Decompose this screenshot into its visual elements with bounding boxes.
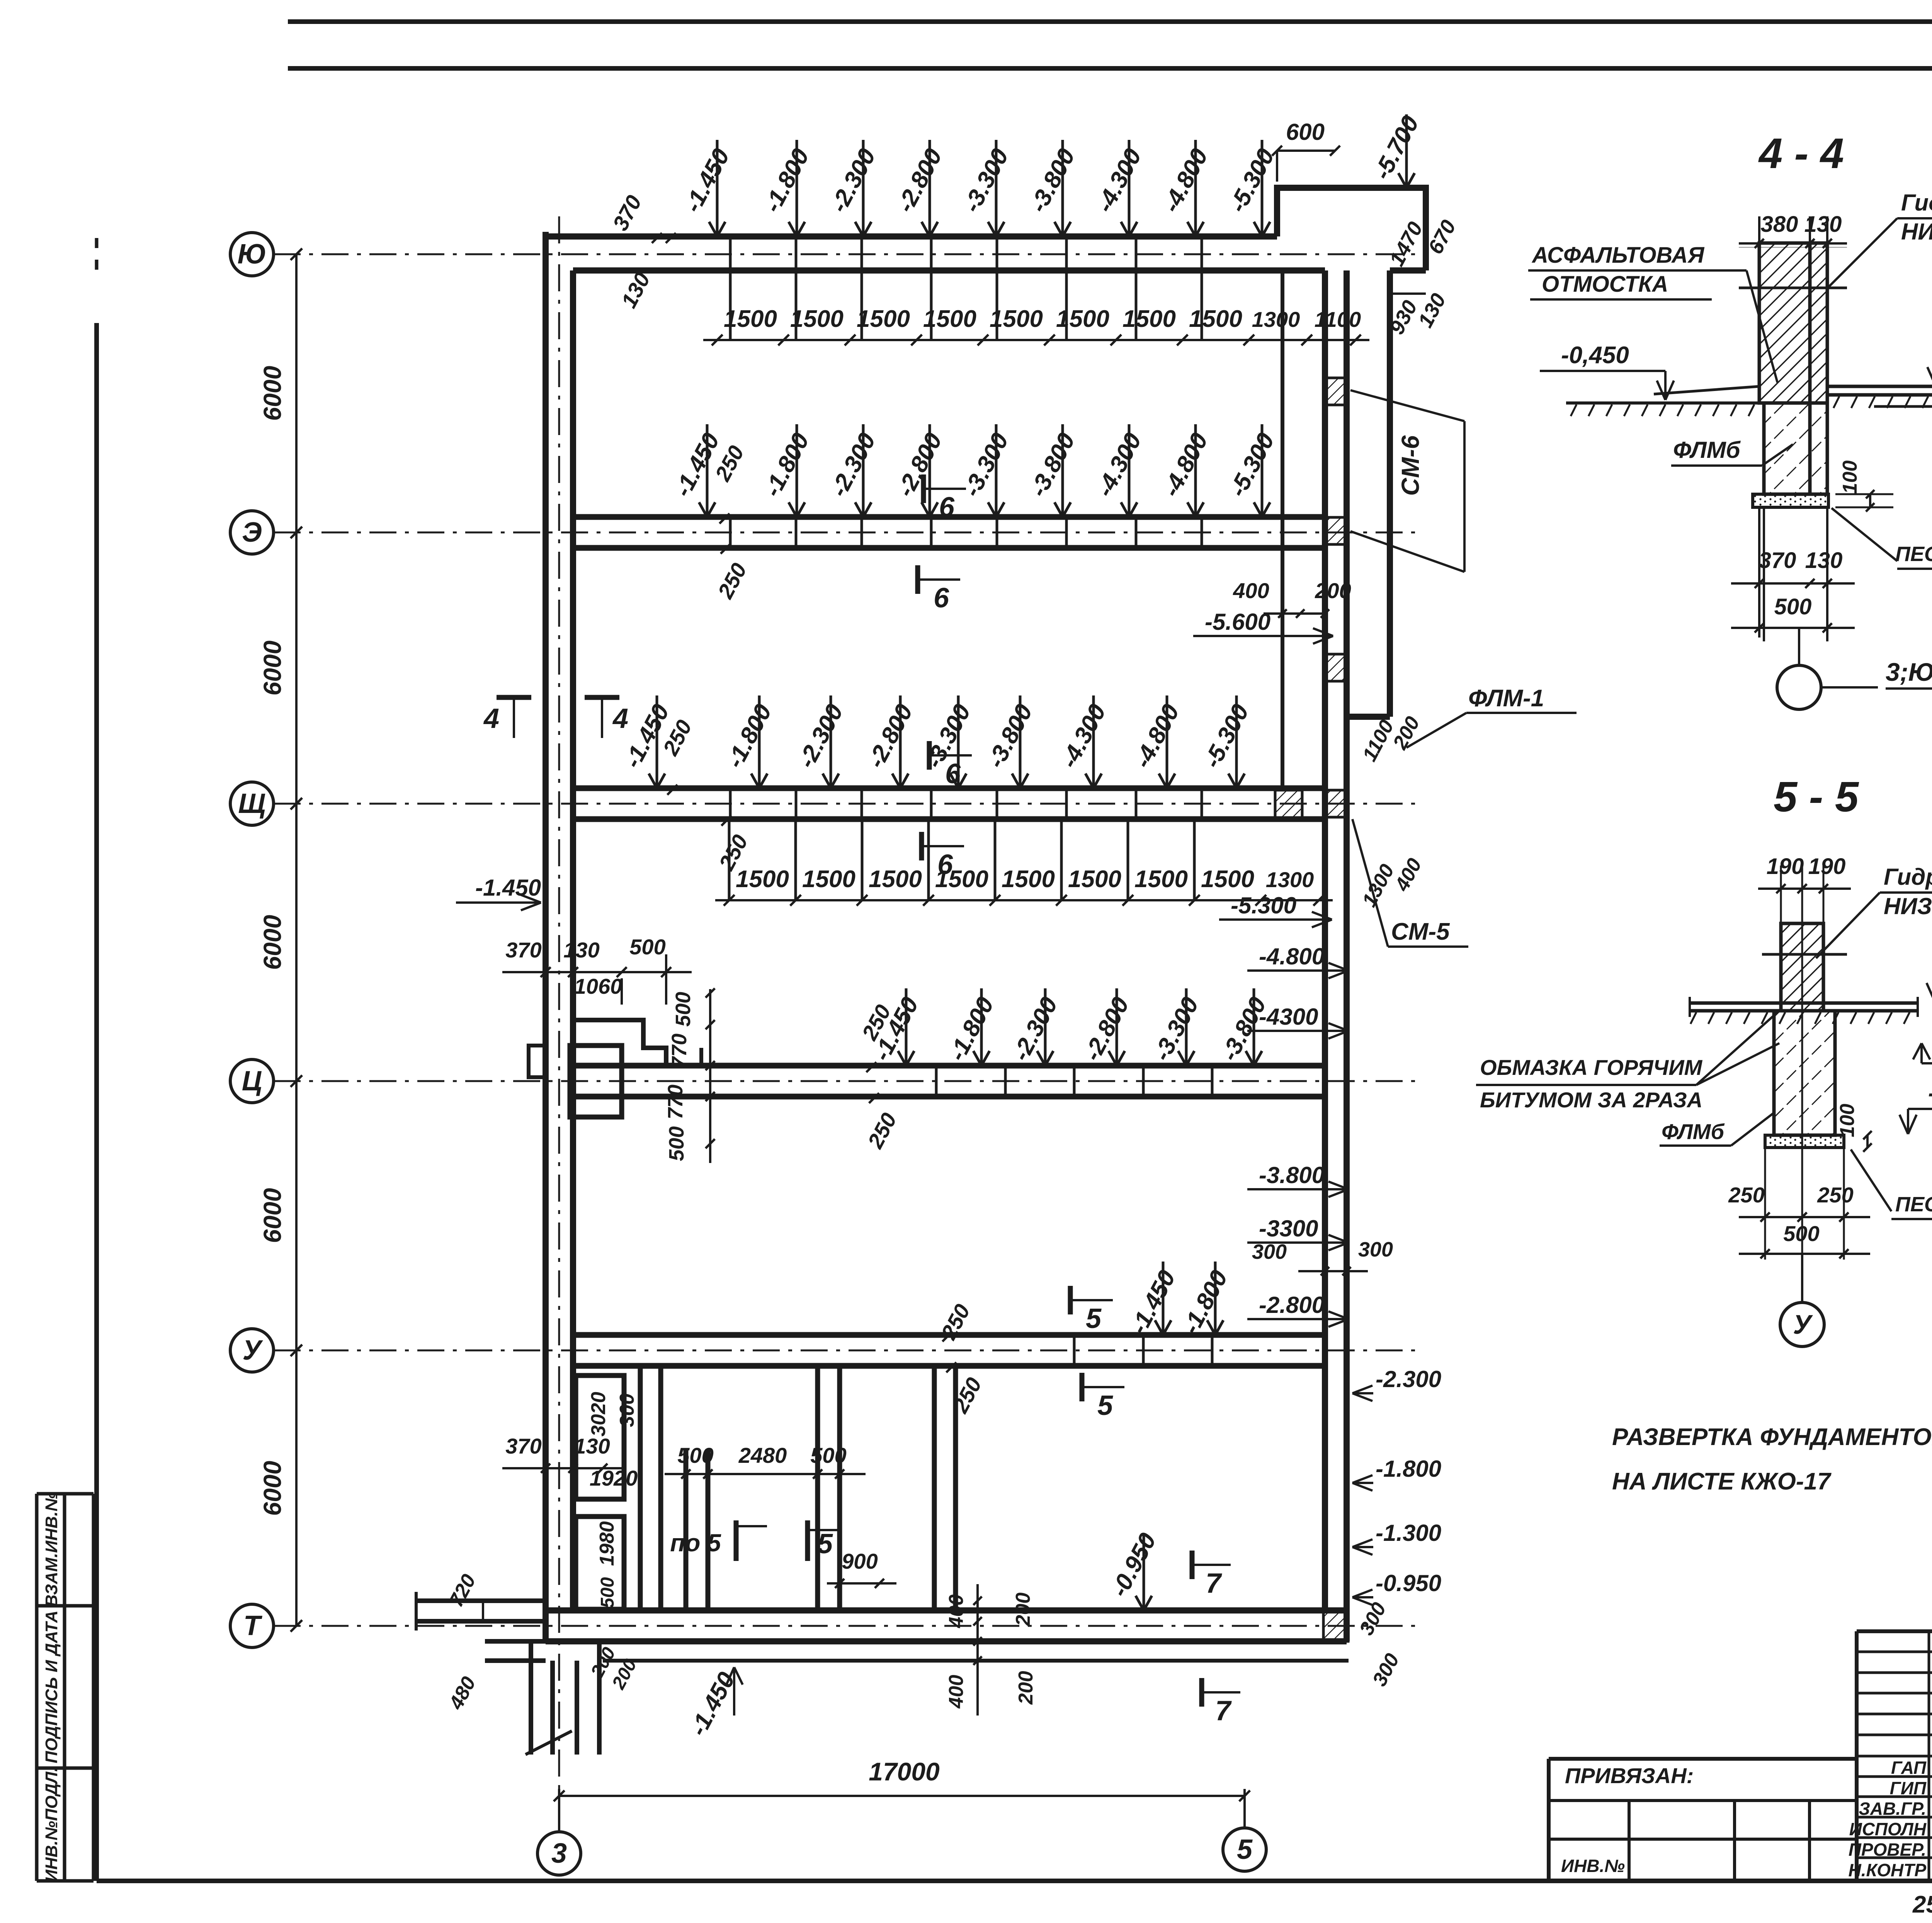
svg-text:500: 500 [1774,594,1812,619]
svg-text:-4300: -4300 [1259,1004,1318,1030]
axis У [230,1329,274,1372]
section 4-4 axis circle 3;Yu;A;4 [1798,628,1800,665]
svg-text:ЗАВ.ГР.: ЗАВ.ГР. [1859,1799,1926,1819]
svg-text:6: 6 [945,758,961,789]
svg-text:1500: 1500 [790,306,844,332]
svg-text:7: 7 [1206,1568,1222,1599]
svg-text:1500: 1500 [736,866,789,893]
svg-text:300: 300 [1358,1238,1393,1261]
svg-text:НИЗ НА ∇ -0.050: НИЗ НА ∇ -0.050 [1901,219,1932,245]
svg-text:4: 4 [483,703,499,734]
svg-text:ПЕСЧАНАЯ ПОДГОТОВКА: ПЕСЧАНАЯ ПОДГОТОВКА [1895,542,1932,566]
svg-text:-1.450: -1.450 [1928,1080,1932,1107]
svg-text:НИЗ НА ∇- 0.050: НИЗ НА ∇- 0.050 [1884,893,1932,919]
left margin stamp boxes [37,1492,94,1496]
row of depth arrows above axis Ts wall [905,988,908,1066]
svg-text:500: 500 [1783,1221,1819,1246]
svg-text:Гидроизоляция: Гидроизоляция [1884,864,1932,890]
svg-text:1500: 1500 [1068,866,1121,893]
plan: interior cells left side between Ts and U [573,1020,666,1066]
plan: right wall [1322,270,1328,1610]
svg-text:6: 6 [934,583,949,614]
section cut 6 marks at axis E [921,474,926,503]
svg-text:ФЛМб: ФЛМб [1662,1119,1725,1144]
section 5-5 foundation block [1774,1011,1835,1135]
svg-text:-5.300: -5.300 [1231,893,1296,918]
svg-text:3;Ю;А;4: 3;Ю;А;4 [1886,658,1932,686]
svg-text:-1.450: -1.450 [475,875,541,901]
svg-text:-1.800: -1.800 [1376,1456,1441,1482]
left frame line [95,238,99,270]
svg-text:1500: 1500 [802,866,855,893]
dim 600 and -5.700 top right [1277,150,1335,152]
svg-text:ИСПОЛН: ИСПОЛН [1849,1819,1927,1839]
svg-text:БИТУМОМ ЗА 2РАЗА: БИТУМОМ ЗА 2РАЗА [1480,1088,1702,1112]
row of depth arrows above axis Shch wall [656,695,658,788]
svg-text:Т: Т [243,1610,263,1641]
svg-text:РАЗВЕРТКА ФУНДАМЕНТОВ ПО ОС: РАЗВЕРТКА ФУНДАМЕНТОВ ПО ОСИ 5 ДАНА [1612,1424,1932,1450]
svg-text:1920: 1920 [590,1466,638,1490]
svg-text:-0.950: -0.950 [1376,1570,1441,1596]
svg-text:Э: Э [242,517,262,548]
bottom frame line [97,1879,1932,1883]
axis Ю [230,233,274,276]
svg-text:500: 500 [597,1577,618,1608]
svg-text:6000: 6000 [259,1461,286,1516]
depth arrow -0.950 above axis T and cut 7 [1143,1533,1145,1610]
svg-text:130: 130 [574,1434,610,1458]
svg-text:7: 7 [1215,1695,1232,1726]
svg-text:ФЛМ-1: ФЛМ-1 [1468,685,1544,712]
svg-text:1500: 1500 [1189,306,1242,332]
vertical dimension line 6000 column [295,254,298,1626]
svg-text:5: 5 [1086,1303,1102,1334]
svg-text:1300: 1300 [1266,867,1314,892]
plan: cells below U [576,1376,624,1499]
svg-text:1500: 1500 [990,306,1043,332]
section cut 4 marks left of plan [497,695,531,700]
svg-text:1500: 1500 [1002,866,1055,893]
svg-text:370: 370 [505,938,541,962]
section cut 6 marks at axis Shch [927,741,932,770]
svg-text:1060: 1060 [574,974,622,998]
svg-text:250: 250 [1817,1183,1853,1207]
row of depth arrows above axis E wall [706,424,709,517]
plan: interior walls E Shch Ts U [573,514,1325,520]
svg-text:1500: 1500 [1201,866,1254,893]
depth arrows above axis U wall right part [1162,1262,1165,1335]
svg-text:400: 400 [945,1595,968,1629]
svg-text:1500: 1500 [1056,306,1109,332]
svg-text:1500: 1500 [1134,866,1188,893]
svg-text:СМ-5: СМ-5 [1391,918,1450,945]
svg-text:770: 770 [668,1034,691,1068]
svg-text:ФЛМб: ФЛМб [1673,437,1741,463]
svg-text:-4.800: -4.800 [1259,944,1325,969]
svg-text:ОТМОСТКА: ОТМОСТКА [1542,272,1668,297]
svg-text:6000: 6000 [259,366,286,421]
svg-text:4 - 4: 4 - 4 [1758,130,1844,177]
axis Щ [230,782,274,825]
svg-text:500: 500 [677,1443,713,1467]
svg-text:6000: 6000 [259,1188,286,1243]
svg-text:У: У [1793,1309,1813,1340]
svg-text:-1.300: -1.300 [1376,1520,1441,1546]
svg-text:СМ-6: СМ-6 [1396,435,1424,496]
svg-text:17000: 17000 [869,1757,940,1786]
axis Э [230,511,274,554]
svg-text:НА ЛИСТЕ КЖО-17: НА ЛИСТЕ КЖО-17 [1612,1468,1832,1495]
svg-text:У: У [243,1335,264,1366]
dimension chain 1500x8 1300 1100 below Yu [703,339,1369,341]
svg-text:1100: 1100 [1315,307,1361,332]
section 5-5 wall hatched [1781,923,1823,1011]
svg-text:1500: 1500 [724,306,777,332]
svg-text:200: 200 [1015,1671,1037,1705]
svg-text:380: 380 [1761,212,1798,237]
plan: hatched columns CM on right wall [1323,378,1348,405]
dimension chain 1500x8 1300 below Shch [715,899,1333,901]
plan: left stubs at axis T [416,1598,546,1603]
axis circle 5 [1223,1828,1266,1871]
svg-text:ПОДПИСЬ И ДАТА: ПОДПИСЬ И ДАТА [42,1610,61,1763]
svg-text:-5.600: -5.600 [1205,609,1270,635]
signature table [1857,1629,1932,1633]
svg-text:1300: 1300 [1252,307,1300,332]
axis Ц [230,1059,274,1103]
svg-text:6000: 6000 [259,641,286,695]
svg-text:-3.800: -3.800 [1259,1162,1325,1188]
svg-text:1500: 1500 [869,866,922,893]
svg-text:1500: 1500 [923,306,976,332]
axis circle 3 [537,1832,581,1875]
svg-text:770: 770 [664,1085,687,1119]
axis Т [230,1604,274,1648]
plan: wall tail below T on axis 3 [529,1641,533,1755]
plan: bottom wall axis T [546,1607,1347,1614]
svg-text:400: 400 [945,1675,968,1709]
svg-text:АСФАЛЬТОВАЯ: АСФАЛЬТОВАЯ [1531,243,1705,268]
svg-text:Н.КОНТР: Н.КОНТР [1849,1860,1927,1880]
svg-text:900: 900 [842,1549,878,1573]
svg-text:300: 300 [1252,1240,1287,1263]
svg-text:по 5: по 5 [670,1529,721,1557]
svg-text:ВЗАМ.ИНВ.№: ВЗАМ.ИНВ.№ [42,1492,61,1607]
svg-text:-2.800: -2.800 [1259,1292,1325,1318]
svg-text:ПЕСЧАНАЯ ПОДГОТОВКА: ПЕСЧАНАЯ ПОДГОТОВКА [1895,1193,1932,1216]
section 4-4 wall hatched [1759,243,1810,403]
svg-text:ОБМАЗКА ГОРЯЧИМ: ОБМАЗКА ГОРЯЧИМ [1480,1055,1702,1080]
svg-text:Щ: Щ [238,788,265,819]
dim 17000 with axis circles 3 and 5 [558,1789,560,1831]
section cut 5 marks near axis U [1068,1286,1073,1314]
svg-text:500: 500 [665,1126,688,1161]
svg-text:ПРОВЕР.: ПРОВЕР. [1849,1840,1926,1860]
svg-text:1500: 1500 [1122,306,1176,332]
svg-text:370: 370 [1759,548,1796,573]
svg-text:Ц: Ц [242,1066,262,1097]
-1.450 below T wall [733,1667,735,1716]
svg-text:300: 300 [616,1394,638,1427]
svg-text:25343-01: 25343-01 [1912,1891,1932,1918]
svg-text:Ю: Ю [237,239,266,270]
svg-text:2480: 2480 [738,1443,787,1467]
row of foundation-depth arrows along axis Yu [716,140,719,236]
svg-text:130: 130 [1805,548,1843,573]
svg-text:5: 5 [1097,1390,1113,1421]
svg-text:370: 370 [505,1434,541,1458]
section 5-5 floor lines both sides [1690,1001,1918,1005]
svg-text:600: 600 [1286,119,1325,145]
svg-text:-0,450: -0,450 [1561,342,1629,369]
svg-text:200: 200 [1012,1593,1034,1627]
svg-text:190: 190 [1767,854,1804,879]
svg-text:100: 100 [1839,461,1861,494]
section 4-4 foundation block FLMb [1764,403,1810,494]
svg-text:ИНВ.№ПОДЛ.: ИНВ.№ПОДЛ. [42,1767,61,1882]
svg-text:190: 190 [1808,854,1846,879]
svg-text:500: 500 [629,935,665,959]
svg-text:6: 6 [939,492,955,523]
svg-text:-2.300: -2.300 [1376,1366,1441,1392]
svg-text:ГИП: ГИП [1890,1778,1927,1798]
section 4-4 footing pad [1753,494,1828,507]
svg-text:130: 130 [563,938,599,962]
svg-text:200: 200 [1315,578,1351,603]
svg-text:250: 250 [1728,1183,1764,1207]
svg-text:ПРИВЯЗАН:: ПРИВЯЗАН: [1565,1763,1694,1788]
svg-text:5: 5 [1237,1834,1253,1865]
svg-text:1500: 1500 [935,866,988,893]
svg-text:3: 3 [551,1838,567,1869]
svg-text:100: 100 [1836,1104,1859,1137]
plan: top wall axis Ю with right step [546,233,1277,240]
plan: course ticks on walls [729,236,732,340]
svg-text:ГАП: ГАП [1891,1758,1927,1778]
svg-text:400: 400 [1233,578,1269,603]
svg-text:4: 4 [612,703,628,734]
section 4-4 ground and floor [1566,401,1759,405]
svg-text:500: 500 [672,992,695,1027]
sheet frame top border lines [288,19,1932,24]
plan: left outer wall axis 3 [543,232,549,1641]
section 5-5 axis circle U [1801,1254,1803,1302]
svg-text:-3300: -3300 [1259,1216,1318,1241]
svg-text:ИНВ.№: ИНВ.№ [1561,1856,1625,1876]
svg-text:Гидроизоляция: Гидроизоляция [1901,190,1932,216]
section 5-5 footing pad [1765,1135,1844,1148]
svg-text:500: 500 [810,1443,846,1467]
svg-text:5: 5 [817,1529,833,1559]
svg-text:1980: 1980 [596,1521,618,1566]
svg-text:1500: 1500 [857,306,910,332]
title block outer [1547,1759,1551,1881]
svg-text:5 - 5: 5 - 5 [1774,773,1859,821]
svg-text:6000: 6000 [259,915,286,970]
svg-text:3020: 3020 [587,1392,610,1437]
